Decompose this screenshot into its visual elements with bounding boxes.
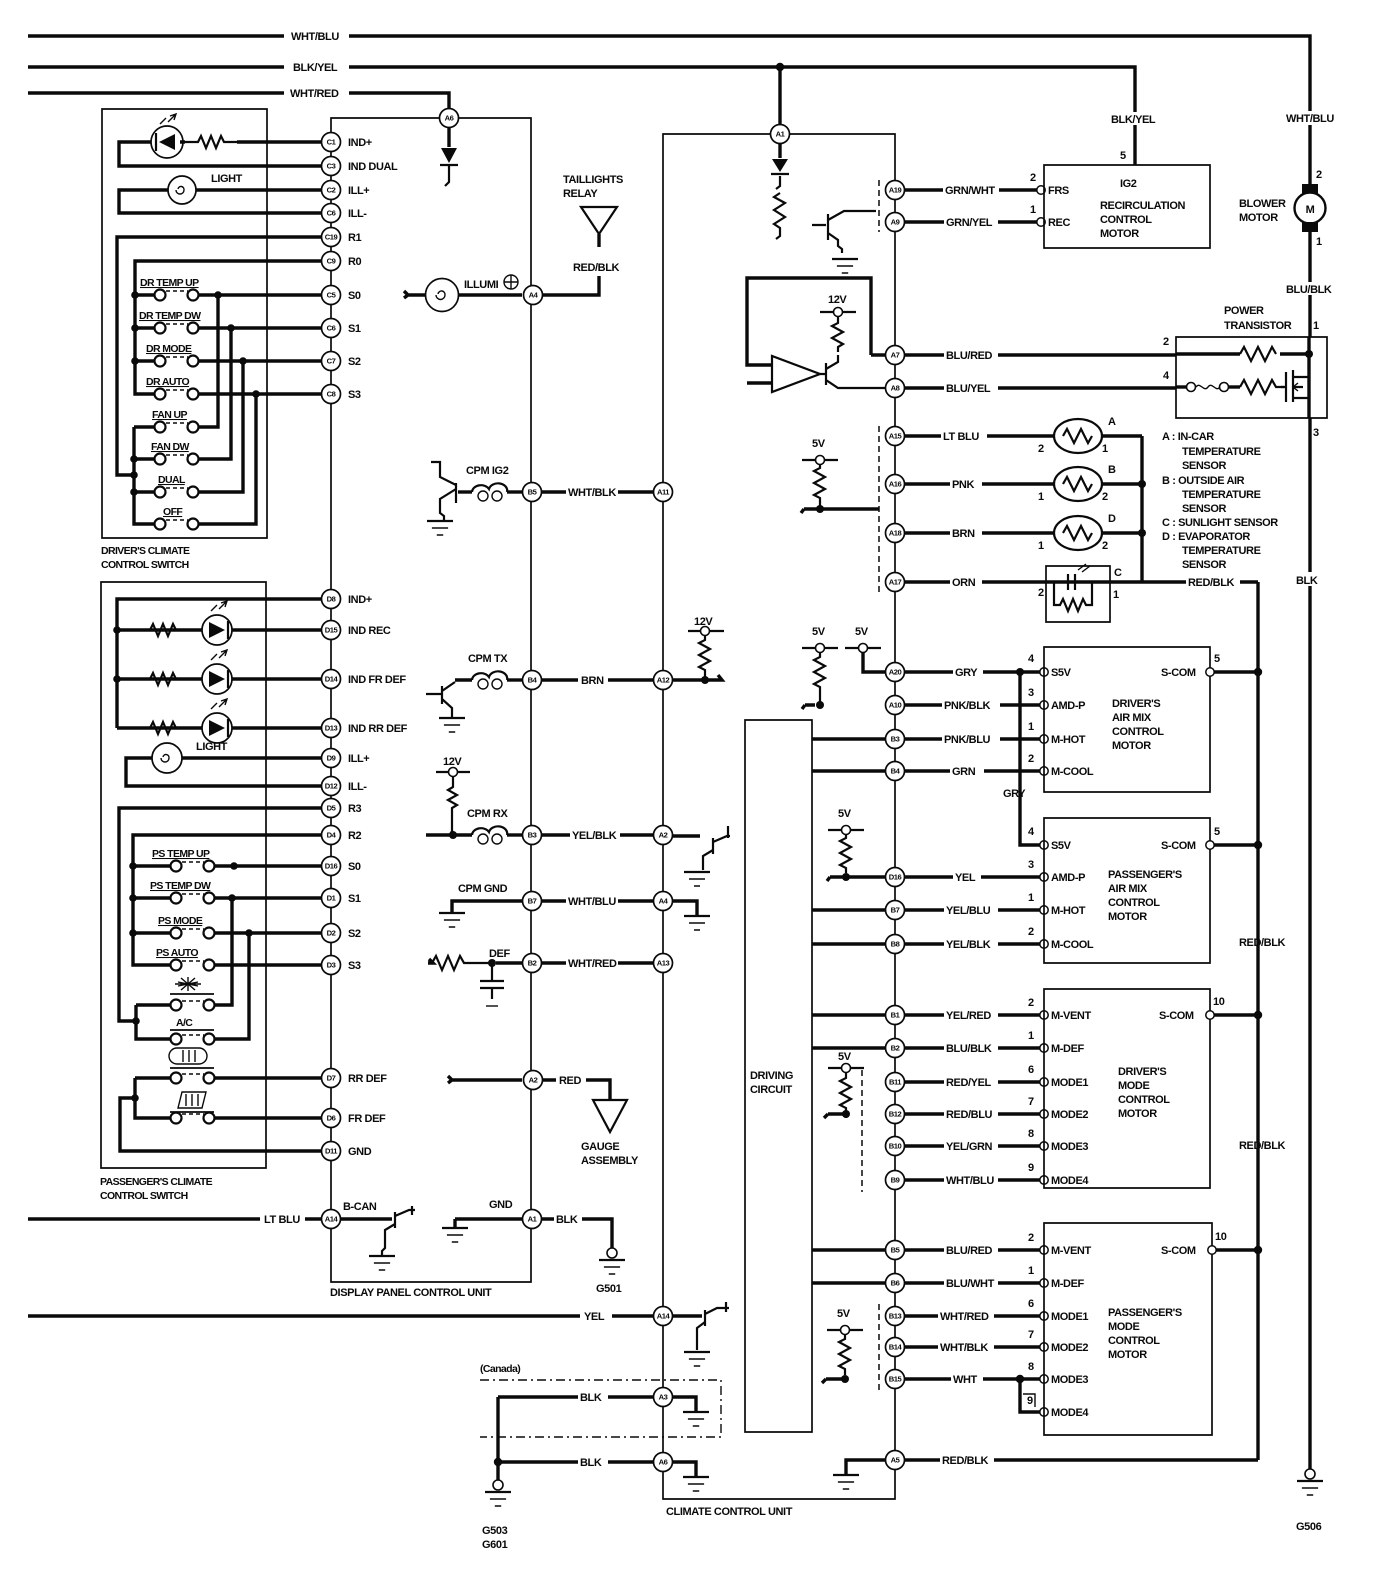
wire BLU/RED A7 to power transistor pin 2 xyxy=(871,348,1176,362)
svg-text:YEL/BLK: YEL/BLK xyxy=(572,830,617,842)
connector D8 (IND+) xyxy=(322,590,341,609)
wire WHT/RED B13 to MODE1 xyxy=(904,1298,1088,1323)
svg-text:5V: 5V xyxy=(855,626,869,638)
svg-text:RED/BLK: RED/BLK xyxy=(1239,937,1286,949)
wire LT BLU A15 to sensor A xyxy=(904,429,1054,443)
svg-text:M-VENT: M-VENT xyxy=(1051,1245,1091,1257)
svg-text:B : OUTSIDE AIR: B : OUTSIDE AIR xyxy=(1162,475,1245,487)
coil CPM TX xyxy=(468,653,508,689)
svg-text:RED: RED xyxy=(559,1075,581,1087)
transistor op-amp output xyxy=(820,355,886,388)
5V supply (A20) xyxy=(845,626,886,672)
svg-text:2: 2 xyxy=(1028,1232,1034,1244)
svg-text:LT BLU: LT BLU xyxy=(943,431,979,443)
svg-text:D7: D7 xyxy=(327,1074,336,1083)
svg-text:A19: A19 xyxy=(889,186,902,195)
connector A13 (climate left) xyxy=(654,954,673,973)
wire S-COM passenger mode xyxy=(1216,1246,1262,1254)
svg-text:MOTOR: MOTOR xyxy=(1239,212,1278,224)
switch PS TEMP UP xyxy=(152,848,215,872)
connector D2 (S2) xyxy=(322,924,341,943)
switch DR TEMP DW xyxy=(139,310,201,334)
connector C1 (IND+) xyxy=(322,133,341,152)
wire coil to B5 xyxy=(507,490,522,493)
connector D6 (FR DEF) xyxy=(322,1109,341,1128)
svg-text:MODE3: MODE3 xyxy=(1051,1374,1088,1386)
svg-text:S0: S0 xyxy=(348,290,361,302)
svg-text:GRN/WHT: GRN/WHT xyxy=(945,185,995,197)
svg-text:A1: A1 xyxy=(528,1215,538,1224)
svg-text:GRN: GRN xyxy=(952,766,976,778)
svg-text:S-COM: S-COM xyxy=(1161,840,1196,852)
svg-text:RED/BLK: RED/BLK xyxy=(573,262,620,274)
svg-text:9: 9 xyxy=(1027,1395,1033,1407)
svg-text:CPM RX: CPM RX xyxy=(467,808,508,820)
svg-text:LIGHT: LIGHT xyxy=(196,741,228,753)
svg-text:TEMPERATURE: TEMPERATURE xyxy=(1182,446,1261,458)
connector A18 xyxy=(886,524,905,543)
wire S1 net (C6, DR TEMP DW, FAN DW) xyxy=(199,328,322,459)
wire S-COM passenger air mix xyxy=(1214,841,1262,849)
svg-text:S5V: S5V xyxy=(1051,840,1072,852)
svg-text:DR AUTO: DR AUTO xyxy=(146,376,189,388)
connector A4 xyxy=(524,286,543,305)
connector A17 xyxy=(886,573,905,592)
connector B10 xyxy=(886,1137,905,1156)
svg-text:MODE1: MODE1 xyxy=(1051,1077,1088,1089)
svg-text:BRN: BRN xyxy=(581,675,604,687)
ground of A19 transistor xyxy=(832,258,858,260)
svg-text:2: 2 xyxy=(1030,172,1036,184)
svg-text:2: 2 xyxy=(1028,753,1034,765)
wire RED/BLK rail xyxy=(1256,582,1259,1460)
svg-text:5: 5 xyxy=(1214,653,1220,665)
svg-text:B5: B5 xyxy=(891,1246,901,1255)
wire GRY bus to passenger S5V xyxy=(1003,672,1072,852)
svg-text:GND: GND xyxy=(489,1199,513,1211)
wire WHT/RED bus xyxy=(28,88,449,110)
wire GRN B4 to M-COOL xyxy=(812,753,1094,778)
svg-text:7: 7 xyxy=(1028,1329,1034,1341)
svg-text:D3: D3 xyxy=(327,961,336,970)
wire RED/BLK A5 xyxy=(904,1453,1258,1467)
svg-text:MOTOR: MOTOR xyxy=(1118,1108,1157,1120)
svg-text:FAN DW: FAN DW xyxy=(151,441,190,453)
svg-text:B3: B3 xyxy=(891,735,900,744)
svg-text:M-DEF: M-DEF xyxy=(1051,1043,1085,1055)
front defrost icon xyxy=(170,1092,214,1112)
svg-text:DR MODE: DR MODE xyxy=(146,343,192,355)
wire S2 net (D2, PS MODE, A/C lower) xyxy=(215,933,322,1039)
svg-text:B1: B1 xyxy=(891,1011,901,1020)
svg-text:B2: B2 xyxy=(528,959,537,968)
connector A3 xyxy=(654,1388,673,1407)
connector A19 xyxy=(886,181,905,200)
LED indicator IND FR DEF xyxy=(202,650,232,694)
svg-text:5V: 5V xyxy=(812,438,826,450)
svg-text:S-COM: S-COM xyxy=(1161,667,1196,679)
wire RED/BLK sensor common xyxy=(1110,436,1258,589)
svg-text:B14: B14 xyxy=(889,1343,903,1352)
svg-text:AMD-P: AMD-P xyxy=(1051,700,1085,712)
svg-text:1: 1 xyxy=(1313,320,1319,332)
svg-text:ILL-: ILL- xyxy=(348,208,367,220)
svg-text:TRANSISTOR: TRANSISTOR xyxy=(1224,320,1292,332)
svg-text:D6: D6 xyxy=(327,1114,336,1123)
wire WHT/BLK B5-A11 xyxy=(541,485,654,499)
svg-text:PASSENGER'S CLIMATE: PASSENGER'S CLIMATE xyxy=(100,1176,213,1188)
svg-text:A4: A4 xyxy=(659,897,669,906)
switch DR MODE xyxy=(146,343,199,367)
svg-text:MOTOR: MOTOR xyxy=(1108,911,1147,923)
wire WHT B15 to MODE3/MODE4 xyxy=(904,1361,1089,1419)
connector C9 (R0) xyxy=(322,252,341,271)
svg-text:5V: 5V xyxy=(838,1051,852,1063)
svg-text:S1: S1 xyxy=(348,893,361,905)
svg-text:BLK: BLK xyxy=(580,1392,602,1404)
svg-text:MODE4: MODE4 xyxy=(1051,1175,1089,1187)
svg-text:B7: B7 xyxy=(528,897,537,906)
svg-text:WHT/RED: WHT/RED xyxy=(290,88,339,100)
svg-text:A2: A2 xyxy=(529,1076,538,1085)
svg-text:D9: D9 xyxy=(327,754,336,763)
connector A10 xyxy=(886,696,905,715)
wire S2 net (C7, DR MODE, DUAL) xyxy=(199,361,322,492)
connector D4 (R2) xyxy=(322,826,341,845)
svg-text:S-COM: S-COM xyxy=(1159,1010,1194,1022)
svg-text:12V: 12V xyxy=(443,756,462,768)
coil CPM IG2 xyxy=(466,465,509,501)
svg-text:DRIVER'S: DRIVER'S xyxy=(1112,698,1160,710)
svg-text:RELAY: RELAY xyxy=(563,188,598,200)
svg-text:A7: A7 xyxy=(891,351,900,360)
LED indicator IND REC xyxy=(202,601,232,645)
svg-text:MODE2: MODE2 xyxy=(1051,1109,1088,1121)
svg-text:WHT/BLK: WHT/BLK xyxy=(568,487,616,499)
ground G506 xyxy=(1305,1469,1315,1479)
svg-text:MODE: MODE xyxy=(1118,1080,1149,1092)
capacitor DEF xyxy=(480,963,504,1006)
ground at A4 (climate) xyxy=(672,901,697,915)
MOSFET power transistor xyxy=(1281,337,1309,418)
svg-text:10: 10 xyxy=(1213,996,1225,1008)
svg-text:ILL+: ILL+ xyxy=(348,753,369,765)
connector A6 (climate) xyxy=(654,1453,673,1472)
ground CPM GND xyxy=(452,883,522,912)
resistor pin2 power transistor xyxy=(1176,347,1313,361)
svg-text:D15: D15 xyxy=(325,626,339,635)
ground CPM IG2 xyxy=(427,520,453,522)
ground at A3 xyxy=(672,1397,696,1411)
svg-text:PS MODE: PS MODE xyxy=(158,915,203,927)
svg-text:D : EVAPORATOR: D : EVAPORATOR xyxy=(1162,531,1250,543)
svg-text:S2: S2 xyxy=(348,356,361,368)
svg-text:M-COOL: M-COOL xyxy=(1051,766,1094,778)
wire WHT/BLK B14 to MODE2 xyxy=(904,1329,1088,1354)
svg-text:CONTROL: CONTROL xyxy=(1112,726,1164,738)
svg-text:B15: B15 xyxy=(889,1375,903,1384)
svg-text:DRIVER'S CLIMATE: DRIVER'S CLIMATE xyxy=(101,545,190,557)
gauge assembly xyxy=(581,1100,639,1167)
svg-text:IG2: IG2 xyxy=(1120,178,1137,190)
svg-text:D4: D4 xyxy=(327,831,337,840)
ground GND (display) xyxy=(455,1199,522,1227)
svg-text:IND RR DEF: IND RR DEF xyxy=(348,723,408,735)
svg-text:WHT: WHT xyxy=(953,1374,978,1386)
connector B9 xyxy=(886,1171,905,1190)
svg-text:8: 8 xyxy=(1028,1128,1034,1140)
svg-text:CONTROL SWITCH: CONTROL SWITCH xyxy=(101,559,189,571)
12V pull-up on A12 wire xyxy=(672,616,724,684)
svg-text:MOTOR: MOTOR xyxy=(1100,228,1139,240)
switch PS AUTO xyxy=(156,947,215,971)
svg-text:DEF: DEF xyxy=(489,948,510,960)
svg-text:AMD-P: AMD-P xyxy=(1051,872,1085,884)
connector A14 (climate) xyxy=(654,1307,673,1326)
svg-text:IND DUAL: IND DUAL xyxy=(348,161,398,173)
svg-text:A5: A5 xyxy=(891,1456,901,1465)
svg-text:D12: D12 xyxy=(325,782,338,791)
wire WHT/RED B2-A13 xyxy=(541,956,654,970)
connector B7 (display) xyxy=(523,892,542,911)
svg-text:BLOWER: BLOWER xyxy=(1239,198,1286,210)
diode below A1 xyxy=(771,144,789,189)
svg-text:AIR MIX: AIR MIX xyxy=(1112,712,1152,724)
svg-text:LIGHT: LIGHT xyxy=(211,173,243,185)
transistor at A2 (climate) xyxy=(672,826,730,870)
svg-text:3: 3 xyxy=(1313,427,1319,439)
wire RED/BLU B12 to MODE2 xyxy=(904,1096,1088,1121)
svg-text:PASSENGER'S: PASSENGER'S xyxy=(1108,869,1182,881)
svg-text:WHT/RED: WHT/RED xyxy=(940,1311,989,1323)
wire S0 net passenger xyxy=(215,864,322,867)
switch A/C lower xyxy=(171,1034,215,1045)
svg-text:BLK/YEL: BLK/YEL xyxy=(1111,114,1156,126)
connector C2 (ILL+) xyxy=(322,181,341,200)
svg-text:POWER: POWER xyxy=(1224,305,1264,317)
svg-text:C5: C5 xyxy=(327,291,337,300)
svg-text:CPM GND: CPM GND xyxy=(458,883,508,895)
wire YEL D16 to AMD-P xyxy=(904,859,1085,884)
svg-text:YEL: YEL xyxy=(955,872,976,884)
switch FR DEF xyxy=(171,1113,215,1124)
bracket A19/A9 xyxy=(878,180,880,232)
svg-text:BRN: BRN xyxy=(952,528,975,540)
svg-text:CONTROL: CONTROL xyxy=(1108,1335,1160,1347)
svg-text:CONTROL SWITCH: CONTROL SWITCH xyxy=(100,1190,188,1202)
svg-text:GRY: GRY xyxy=(1003,788,1026,800)
svg-text:A18: A18 xyxy=(889,529,902,538)
svg-text:C2: C2 xyxy=(327,186,336,195)
svg-text:PS AUTO: PS AUTO xyxy=(156,947,198,959)
svg-text:1: 1 xyxy=(1316,236,1322,248)
svg-text:ILL+: ILL+ xyxy=(348,185,369,197)
svg-text:R3: R3 xyxy=(348,803,362,815)
svg-text:BLU/YEL: BLU/YEL xyxy=(946,383,991,395)
svg-text:1: 1 xyxy=(1038,540,1044,552)
svg-text:M-HOT: M-HOT xyxy=(1051,734,1086,746)
illumination bulb LIGHT (passenger) xyxy=(152,741,228,773)
svg-text:1: 1 xyxy=(1028,1265,1034,1277)
svg-text:M-VENT: M-VENT xyxy=(1051,1010,1091,1022)
wire GRN/YEL A9 to REC xyxy=(904,204,1070,229)
driver's air mix control motor box xyxy=(1044,647,1220,792)
connector C5 (S0) xyxy=(322,286,341,305)
svg-text:RED/BLU: RED/BLU xyxy=(946,1109,993,1121)
svg-text:REC: REC xyxy=(1048,217,1070,229)
ground at A6 xyxy=(672,1462,696,1476)
illumination lamp ILLUMI xyxy=(404,275,522,312)
svg-text:B8: B8 xyxy=(891,940,900,949)
svg-text:B11: B11 xyxy=(889,1078,902,1087)
svg-text:RR DEF: RR DEF xyxy=(348,1073,387,1085)
transistor at A14 xyxy=(672,1302,729,1350)
blower motor xyxy=(1239,111,1338,337)
connector D16 xyxy=(886,868,905,887)
connector C6 (S1) xyxy=(322,319,341,338)
svg-text:BLK: BLK xyxy=(580,1457,602,1469)
connector B5 xyxy=(523,483,542,502)
svg-text:8: 8 xyxy=(1028,1361,1034,1373)
wire LT BLU bus xyxy=(28,1214,322,1226)
resistor below diode xyxy=(774,193,785,239)
svg-text:SENSOR: SENSOR xyxy=(1182,460,1227,472)
svg-text:GND: GND xyxy=(348,1146,372,1158)
svg-text:OFF: OFF xyxy=(163,506,183,518)
power transistor box xyxy=(1163,305,1327,439)
passenger's air mix control motor box xyxy=(1044,818,1220,963)
svg-text:B-CAN: B-CAN xyxy=(343,1201,377,1213)
climate control unit box xyxy=(663,134,895,1518)
svg-text:A12: A12 xyxy=(657,676,670,685)
wire S3 net (D3, PS AUTO) xyxy=(215,963,322,966)
connector A9 xyxy=(886,213,905,232)
connector A4 (climate left) xyxy=(654,892,673,911)
svg-text:YEL/RED: YEL/RED xyxy=(946,1010,991,1022)
op-amp feedback loop xyxy=(747,278,871,383)
svg-text:DRIVING: DRIVING xyxy=(750,1070,793,1082)
connector A1 (display) xyxy=(523,1210,542,1229)
wire D8 IND+ bus xyxy=(117,599,322,728)
svg-text:1: 1 xyxy=(1113,589,1119,601)
wire GND bus (D11 to defrost switch left contacts) xyxy=(120,1078,322,1151)
svg-text:M-COOL: M-COOL xyxy=(1051,939,1094,951)
wire S-COM to RED/BLK rail xyxy=(1214,668,1262,676)
wire BLK to G506 xyxy=(1294,418,1326,1470)
svg-text:1: 1 xyxy=(1028,892,1034,904)
illumination bulb LIGHT (driver) xyxy=(168,173,243,204)
transistor CPM IG2 xyxy=(431,461,472,521)
wire S0 net (C5, DR TEMP UP, FAN UP) xyxy=(199,295,322,427)
svg-text:7: 7 xyxy=(1028,1096,1034,1108)
svg-text:C1: C1 xyxy=(327,138,337,147)
op-amp U1 xyxy=(772,356,820,392)
connector C3 (IND DUAL) xyxy=(322,157,341,176)
wire BRN A18 to sensor D xyxy=(904,526,1054,540)
LED indicator IND RR DEF xyxy=(202,699,232,743)
svg-text:C9: C9 xyxy=(327,257,336,266)
svg-text:B13: B13 xyxy=(889,1312,902,1321)
svg-text:C3: C3 xyxy=(327,162,336,171)
svg-text:WHT/BLU: WHT/BLU xyxy=(291,31,339,43)
svg-text:2: 2 xyxy=(1316,169,1322,181)
ground at A2 transistor xyxy=(684,871,710,873)
svg-text:RED/BLK: RED/BLK xyxy=(1239,1140,1286,1152)
svg-text:MODE2: MODE2 xyxy=(1051,1342,1088,1354)
wire BLU/RED B5 to M-VENT xyxy=(812,1232,1091,1257)
svg-text:A6: A6 xyxy=(445,114,454,123)
wire RR DEF to D7 xyxy=(215,1076,322,1079)
svg-text:S3: S3 xyxy=(348,960,361,972)
connector A16 xyxy=(886,475,905,494)
node BLK/YEL to A1 junction xyxy=(776,63,784,125)
connector D16 (S0) xyxy=(322,857,341,876)
svg-text:TAILLIGHTS: TAILLIGHTS xyxy=(563,174,623,186)
wire to A2 RED xyxy=(448,1076,522,1083)
svg-text:B4: B4 xyxy=(891,767,901,776)
svg-text:CLIMATE CONTROL UNIT: CLIMATE CONTROL UNIT xyxy=(666,1506,793,1518)
connector B11 xyxy=(886,1073,905,1092)
wire BRN B4-A12 xyxy=(541,673,654,687)
svg-text:YEL/BLU: YEL/BLU xyxy=(946,905,991,917)
svg-text:CONTROL: CONTROL xyxy=(1118,1094,1170,1106)
connector B4 xyxy=(523,671,542,690)
switch DR TEMP UP xyxy=(140,277,199,301)
wire YEL/BLU B7 to M-HOT xyxy=(812,892,1086,917)
ground CPM TX xyxy=(439,717,465,719)
connector D3 (S3) xyxy=(322,956,341,975)
connector D12 (ILL-) xyxy=(322,777,341,796)
evaporator temperature sensor D xyxy=(1038,513,1146,552)
svg-text:YEL/GRN: YEL/GRN xyxy=(946,1141,993,1153)
wire R2 bus (D4 to PS switch left contacts) xyxy=(133,835,322,965)
svg-text:DRIVER'S: DRIVER'S xyxy=(1118,1066,1166,1078)
svg-text:S3: S3 xyxy=(348,389,361,401)
wire RED/BLK label (right rail lower) xyxy=(1237,1138,1291,1152)
wire C1 IND+ loop to C3 xyxy=(119,142,322,166)
5V pull-up (A10) xyxy=(802,626,838,709)
wire YEL bus xyxy=(28,1311,654,1323)
rear defrost icon xyxy=(169,1048,214,1068)
svg-text:BLK: BLK xyxy=(1296,575,1318,587)
svg-text:LT BLU: LT BLU xyxy=(264,1214,300,1226)
wire YEL/GRN B10 to MODE3 xyxy=(904,1128,1088,1153)
svg-text:A1: A1 xyxy=(776,130,786,139)
passenger's mode control motor box xyxy=(1044,1223,1227,1435)
svg-text:G601: G601 xyxy=(482,1539,508,1551)
svg-text:CIRCUIT: CIRCUIT xyxy=(750,1084,792,1096)
thermal fuse + resistor pin4 xyxy=(1176,380,1284,394)
svg-text:1: 1 xyxy=(1038,491,1044,503)
svg-text:2: 2 xyxy=(1028,997,1034,1009)
svg-text:BLK/YEL: BLK/YEL xyxy=(293,62,338,74)
svg-text:B10: B10 xyxy=(889,1142,902,1151)
svg-text:G501: G501 xyxy=(596,1283,622,1295)
driver's mode control motor box xyxy=(1044,989,1225,1188)
svg-text:C : SUNLIGHT SENSOR: C : SUNLIGHT SENSOR xyxy=(1162,517,1278,529)
switch FAN UP xyxy=(152,409,199,433)
diode at A6 xyxy=(440,128,458,186)
svg-text:A10: A10 xyxy=(889,701,902,710)
bracket A15-A17 xyxy=(878,426,880,592)
resistor DEF xyxy=(428,948,510,970)
svg-text:ILLUMI: ILLUMI xyxy=(464,279,499,291)
driver's climate control switch box xyxy=(101,109,267,571)
ground A14 transistor xyxy=(684,1351,710,1353)
svg-text:6: 6 xyxy=(1028,1298,1034,1310)
12V supply CPM RX xyxy=(436,756,470,835)
svg-text:ORN: ORN xyxy=(952,577,976,589)
